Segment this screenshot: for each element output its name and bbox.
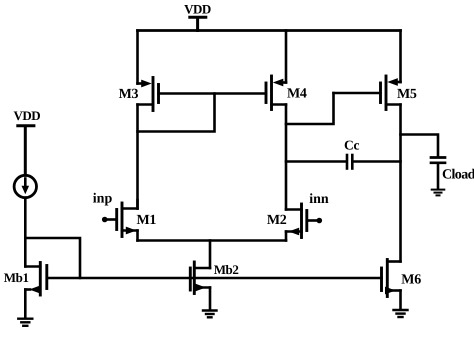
- svg-text:VDD: VDD: [184, 2, 211, 17]
- transistor M1 (NMOS): [105, 203, 138, 237]
- wire: VDD rail: [138, 29, 401, 32]
- svg-text:Mb1: Mb1: [4, 270, 29, 285]
- svg-text:M6: M6: [401, 272, 421, 287]
- transistor M5 (PMOS): [381, 76, 401, 110]
- wire: output node vertical (M5 drain to M6 drain): [399, 105, 402, 262]
- svg-text:VDD: VDD: [13, 108, 40, 123]
- current source Ib (circle with down arrow): [14, 175, 36, 197]
- svg-text:inn: inn: [309, 192, 329, 207]
- transistor M3 (PMOS): [138, 78, 159, 111]
- svg-text:M5: M5: [397, 87, 417, 102]
- wire: Mb1 source down to ground: [24, 290, 27, 319]
- wire: bias bus (Mb1 gate - Mb2 gate - M6 gate): [47, 277, 382, 280]
- ground (below Mb1): [18, 319, 32, 326]
- node inn (input terminal dot): [317, 218, 323, 224]
- svg-text:M2: M2: [267, 213, 287, 228]
- capacitor Cc: [347, 155, 352, 169]
- wire: Mb1 diode connection (drain to gate loop): [25, 238, 80, 278]
- wire: M5 gate jog down to first-stage output node: [286, 93, 334, 124]
- wire: M3 diode connection (gate to drain loop): [138, 94, 215, 132]
- wire: tail bus (M1/M2 sources): [138, 239, 287, 242]
- wire: current source output down to Mb1 drain: [24, 198, 27, 267]
- wire: M1 drain up: [136, 200, 139, 209]
- wire: M5 gate lead: [334, 92, 381, 95]
- wire: M1 source down to tail bus: [136, 231, 139, 241]
- transistor Mb2 (NMOS): [190, 262, 210, 294]
- svg-text:inp: inp: [93, 192, 113, 207]
- wire: M5 source drop from VDD rail: [399, 31, 402, 83]
- VDD power symbol (top center): [190, 17, 206, 30]
- svg-text:Cc: Cc: [344, 138, 359, 153]
- transistor Mb1 (NMOS): [25, 263, 47, 296]
- wire: Cload branch from output node: [401, 135, 439, 157]
- wire: M3 drain down to M1 drain: [136, 105, 139, 209]
- wire: M4 drain down to M2 drain: [285, 105, 288, 210]
- transistor M4 (PMOS): [266, 76, 286, 110]
- VDD power symbol (left): [18, 126, 34, 176]
- wire: M6 source down to ground: [399, 291, 402, 310]
- transistor M2 (NMOS): [286, 204, 319, 238]
- wire: Cc right wire to output node: [354, 160, 401, 163]
- wire: M3-M4 gate line: [159, 92, 267, 95]
- wire: Mb2 source down to ground: [209, 288, 212, 310]
- wire: Cc left wire from first-stage output node: [286, 160, 346, 163]
- svg-text:M4: M4: [287, 87, 307, 102]
- ground (below Mb2): [203, 311, 217, 318]
- svg-text:Mb2: Mb2: [214, 262, 239, 277]
- node inp (input terminal dot): [102, 217, 108, 223]
- svg-text:M1: M1: [137, 213, 157, 228]
- wire: M4 source drop from VDD rail: [285, 31, 288, 83]
- capacitor Cload: [431, 158, 445, 190]
- svg-text:M3: M3: [119, 87, 139, 102]
- wire: M3 source drop from VDD rail: [136, 31, 139, 84]
- wire: tail junction down to Mb2 drain: [209, 241, 212, 269]
- ground (below Cload): [432, 190, 445, 196]
- ground (below M6): [394, 310, 408, 317]
- transistor M6 (NMOS): [382, 260, 401, 297]
- svg-text:Cload: Cload: [442, 167, 474, 182]
- wire: M2 source down to tail bus: [285, 232, 288, 241]
